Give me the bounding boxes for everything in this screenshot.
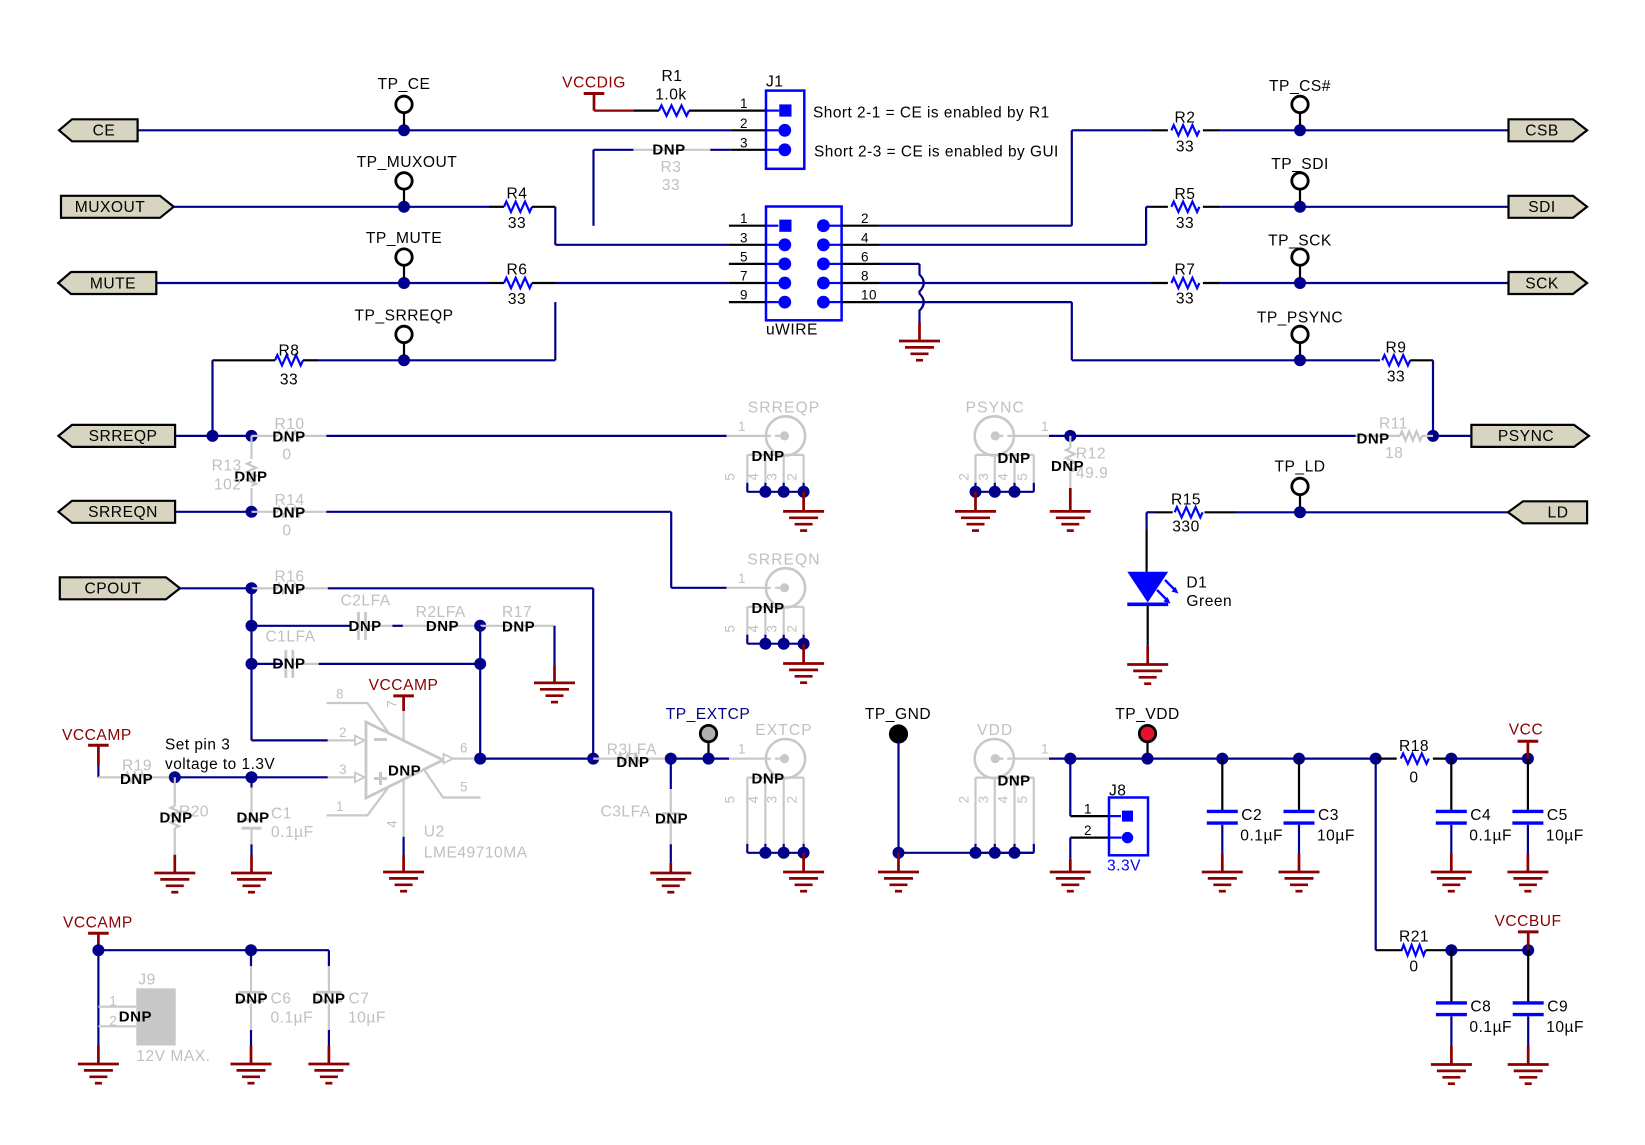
svg-text:1: 1 [740,96,748,111]
svg-text:VCCAMP: VCCAMP [63,915,133,932]
svg-text:5: 5 [460,779,468,794]
svg-text:7: 7 [385,700,400,708]
svg-text:DNP: DNP [349,618,382,635]
svg-text:0.1µF: 0.1µF [271,1009,314,1026]
svg-text:VCCDIG: VCCDIG [562,75,626,92]
svg-text:LME49710MA: LME49710MA [424,844,528,861]
svg-text:3: 3 [765,796,780,804]
svg-text:DNP: DNP [998,450,1031,467]
svg-text:SRREQN: SRREQN [88,504,158,521]
svg-text:R18: R18 [1399,738,1429,755]
svg-text:J1: J1 [766,74,783,91]
svg-text:330: 330 [1172,518,1200,535]
svg-text:2: 2 [740,116,748,131]
svg-text:1: 1 [738,419,746,434]
svg-text:3: 3 [740,230,748,245]
svg-text:1: 1 [336,799,344,814]
svg-text:VCCAMP: VCCAMP [62,727,132,744]
svg-text:0: 0 [1409,769,1418,786]
svg-text:Short 2-1 = CE is enabled by R: Short 2-1 = CE is enabled by R1 [813,105,1050,122]
svg-text:Green: Green [1186,593,1232,610]
svg-text:TP_GND: TP_GND [865,706,931,723]
svg-text:MUTE: MUTE [90,275,136,292]
svg-text:6: 6 [861,249,869,264]
svg-text:3: 3 [339,762,347,777]
svg-text:3.3V: 3.3V [1107,858,1141,875]
svg-text:C1: C1 [271,805,292,822]
svg-text:0: 0 [282,522,291,539]
svg-text:5: 5 [723,473,738,481]
svg-text:DNP: DNP [655,810,688,827]
svg-text:C9: C9 [1547,998,1568,1015]
svg-text:33: 33 [1176,138,1194,155]
svg-text:TP_CE: TP_CE [378,76,431,93]
svg-text:DNP: DNP [312,990,345,1007]
svg-text:PSYNC: PSYNC [966,399,1025,416]
svg-text:0.1µF: 0.1µF [1240,827,1283,844]
svg-text:MUXOUT: MUXOUT [75,199,146,216]
svg-text:10µF: 10µF [1317,827,1355,844]
svg-text:DNP: DNP [752,600,785,617]
svg-text:R1: R1 [662,68,683,85]
svg-text:1: 1 [109,993,117,1008]
svg-text:5: 5 [740,249,748,264]
svg-text:0: 0 [282,446,291,463]
svg-text:3: 3 [765,473,780,481]
svg-text:9: 9 [740,288,748,303]
svg-text:VDD: VDD [977,722,1013,739]
svg-text:1: 1 [1041,419,1049,434]
svg-text:8: 8 [861,269,869,284]
svg-text:DNP: DNP [272,656,305,673]
svg-text:1: 1 [1041,742,1049,757]
svg-text:10: 10 [861,288,877,303]
svg-text:2: 2 [109,1014,117,1029]
svg-text:4: 4 [746,795,761,803]
svg-text:R15: R15 [1171,491,1201,508]
svg-text:5: 5 [723,625,738,633]
svg-text:2: 2 [861,211,869,226]
svg-text:DNP: DNP [998,773,1031,790]
svg-text:TP_SRREQP: TP_SRREQP [355,307,454,324]
svg-text:TP_EXTCP: TP_EXTCP [666,706,751,723]
svg-text:LD: LD [1548,505,1569,522]
svg-text:4: 4 [861,230,869,245]
svg-text:2: 2 [784,625,799,633]
svg-text:0.1µF: 0.1µF [271,824,314,841]
svg-text:6: 6 [460,740,468,755]
svg-text:R7: R7 [1175,262,1196,279]
svg-text:SRREQN: SRREQN [747,551,820,568]
svg-text:DNP: DNP [119,1008,152,1025]
svg-text:C2LFA: C2LFA [341,592,391,609]
svg-text:C6: C6 [271,990,292,1007]
svg-text:D1: D1 [1186,574,1207,591]
svg-text:C8: C8 [1470,998,1491,1015]
svg-text:4: 4 [746,625,761,633]
svg-text:R5: R5 [1175,186,1196,203]
svg-text:33: 33 [508,291,526,308]
svg-text:J8: J8 [1109,783,1126,800]
svg-text:TP_LD: TP_LD [1274,458,1325,475]
svg-text:C5: C5 [1547,807,1568,824]
svg-text:TP_SDI: TP_SDI [1271,156,1329,173]
svg-text:C7: C7 [349,990,370,1007]
svg-text:1: 1 [740,211,748,226]
svg-text:2: 2 [784,473,799,481]
svg-text:2: 2 [1084,823,1092,838]
svg-text:10µF: 10µF [1546,1019,1584,1036]
svg-text:49.9: 49.9 [1076,465,1108,482]
svg-text:J9: J9 [138,972,155,989]
svg-text:uWIRE: uWIRE [766,322,818,339]
svg-text:DNP: DNP [752,448,785,465]
svg-text:102: 102 [214,476,242,493]
svg-text:5: 5 [1015,473,1030,481]
svg-text:voltage to 1.3V: voltage to 1.3V [165,756,275,773]
svg-text:3: 3 [976,796,991,804]
svg-text:U2: U2 [424,823,445,840]
svg-text:DNP: DNP [752,771,785,788]
svg-text:CSB: CSB [1525,123,1559,140]
svg-text:R4: R4 [507,186,528,203]
svg-text:3: 3 [976,473,991,481]
svg-text:TP_VDD: TP_VDD [1115,706,1180,723]
svg-text:0.1µF: 0.1µF [1469,1019,1512,1036]
svg-text:TP_MUXOUT: TP_MUXOUT [357,154,458,171]
svg-text:1: 1 [738,571,746,586]
svg-text:TP_CS#: TP_CS# [1269,78,1331,95]
svg-text:12V MAX.: 12V MAX. [136,1048,210,1065]
svg-text:33: 33 [1387,368,1405,385]
svg-text:10µF: 10µF [1546,827,1584,844]
svg-text:C3: C3 [1318,807,1339,824]
svg-text:0: 0 [1409,959,1418,976]
svg-text:CPOUT: CPOUT [84,581,141,598]
svg-text:4: 4 [996,473,1011,481]
svg-text:R9: R9 [1386,339,1407,356]
svg-text:SDI: SDI [1528,199,1556,216]
svg-text:VCC: VCC [1509,721,1543,738]
svg-text:DNP: DNP [616,754,649,771]
svg-text:DNP: DNP [272,428,305,445]
svg-text:Short 2-3 = CE is enabled by G: Short 2-3 = CE is enabled by GUI [814,144,1059,161]
svg-text:8: 8 [336,686,344,701]
svg-text:2: 2 [339,725,347,740]
svg-text:33: 33 [508,215,526,232]
svg-text:33: 33 [280,371,298,388]
svg-text:R21: R21 [1399,929,1429,946]
svg-text:1: 1 [1084,802,1092,817]
svg-text:2: 2 [957,473,972,481]
svg-text:VCCAMP: VCCAMP [369,677,439,694]
svg-text:4: 4 [996,795,1011,803]
svg-text:R6: R6 [507,262,528,279]
svg-text:R3: R3 [661,159,682,176]
svg-text:DNP: DNP [235,990,268,1007]
svg-text:VCCBUF: VCCBUF [1494,913,1561,930]
svg-text:10µF: 10µF [348,1009,386,1026]
svg-text:4: 4 [746,473,761,481]
svg-text:DNP: DNP [426,618,459,635]
svg-text:R8: R8 [279,342,300,359]
svg-text:DNP: DNP [652,141,685,158]
svg-text:3: 3 [740,135,748,150]
svg-text:5: 5 [723,796,738,804]
svg-text:0.1µF: 0.1µF [1469,827,1512,844]
svg-text:Set pin 3: Set pin 3 [165,736,230,753]
svg-text:SRREQP: SRREQP [748,399,820,416]
svg-text:TP_MUTE: TP_MUTE [366,230,442,247]
svg-text:TP_SCK: TP_SCK [1268,233,1332,250]
svg-text:SCK: SCK [1525,275,1559,292]
svg-text:DNP: DNP [272,581,305,598]
svg-text:DNP: DNP [120,771,153,788]
svg-text:R2: R2 [1175,109,1196,126]
svg-text:33: 33 [1176,291,1194,308]
svg-text:TP_PSYNC: TP_PSYNC [1257,309,1343,326]
svg-text:DNP: DNP [272,504,305,521]
svg-text:DNP: DNP [160,809,193,826]
svg-text:SRREQP: SRREQP [89,428,158,445]
svg-text:DNP: DNP [237,809,270,826]
svg-text:5: 5 [1015,796,1030,804]
svg-text:1: 1 [738,742,746,757]
svg-text:7: 7 [740,269,748,284]
svg-text:33: 33 [662,177,680,194]
svg-text:2: 2 [957,796,972,804]
svg-text:DNP: DNP [502,618,535,635]
svg-text:1.0k: 1.0k [655,87,686,104]
svg-text:DNP: DNP [388,762,421,779]
svg-text:EXTCP: EXTCP [755,722,813,739]
svg-text:C1LFA: C1LFA [265,628,315,645]
svg-text:PSYNC: PSYNC [1498,428,1554,445]
svg-text:CE: CE [93,123,116,140]
svg-text:33: 33 [1176,215,1194,232]
svg-text:C3LFA: C3LFA [601,803,651,820]
svg-text:C2: C2 [1241,807,1262,824]
svg-text:18: 18 [1385,445,1403,462]
svg-text:3: 3 [765,625,780,633]
svg-text:2: 2 [784,796,799,804]
svg-text:C4: C4 [1470,807,1491,824]
svg-text:4: 4 [385,820,400,828]
